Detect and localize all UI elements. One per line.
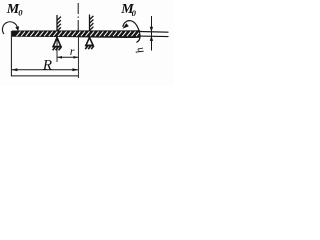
axis extension below [77, 37, 79, 78]
R dim arrow right [72, 68, 78, 71]
svg-text:0: 0 [132, 8, 137, 18]
h dimension arrowhead up [150, 36, 153, 41]
R dimension line [11, 69, 78, 71]
svg-text:r: r [70, 44, 75, 58]
lower boundary line [11, 75, 78, 77]
h dimension line [151, 16, 153, 51]
plate outline right tail (bottom edge) [140, 35, 169, 38]
left moment arrowhead [15, 26, 19, 31]
svg-text:R: R [42, 58, 52, 74]
r dim arrow right [73, 56, 78, 59]
right support upper knife edge [90, 15, 94, 32]
r dimension line [57, 56, 78, 58]
r extension line through left support [56, 37, 58, 62]
R dim arrow left [12, 68, 18, 71]
plate outline right tail (top edge) [140, 31, 169, 34]
right support triangle [85, 37, 94, 49]
right moment arc [123, 21, 140, 43]
h dimension arrowhead down [150, 27, 153, 32]
left support upper knife edge [57, 15, 61, 31]
axis centerline (dash-dot) [77, 3, 79, 31]
r dim arrow left [57, 56, 62, 59]
plate cross-section (hatched band) [12, 30, 140, 38]
right moment arrowhead [123, 23, 129, 29]
svg-text:0: 0 [18, 8, 23, 18]
left end extension line [10, 31, 12, 76]
left moment arc [2, 22, 17, 34]
left support triangle [52, 37, 62, 50]
